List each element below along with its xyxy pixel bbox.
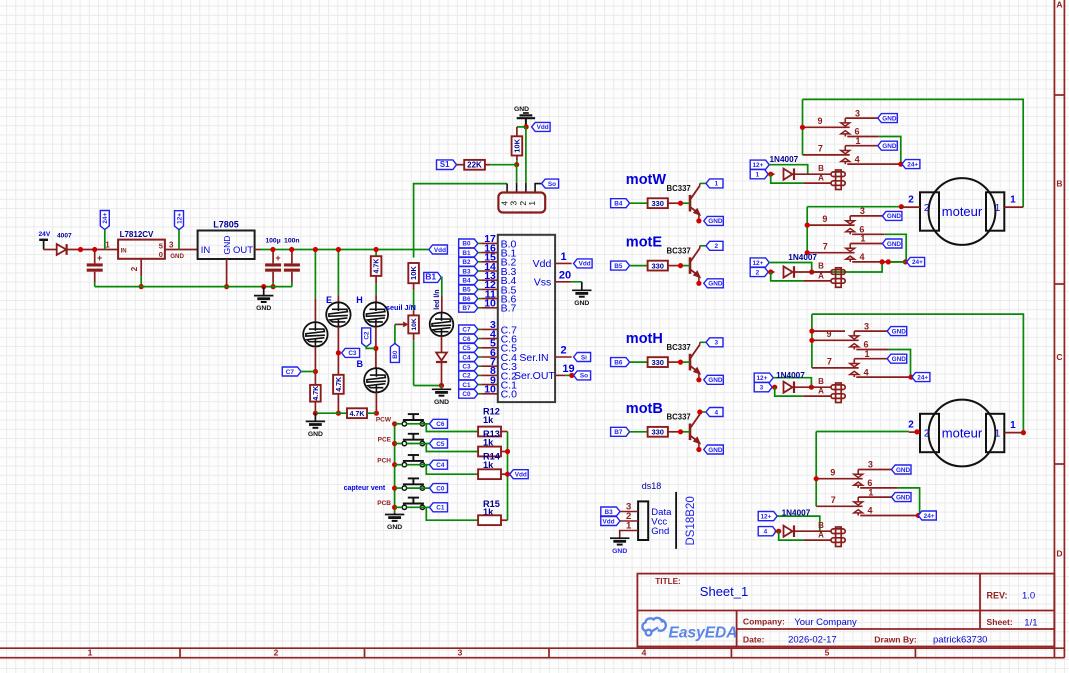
- net flag 12+: [754, 373, 773, 382]
- svg-text:330: 330: [651, 261, 664, 270]
- net flag B3: [601, 507, 620, 516]
- net flag C2: [362, 328, 371, 347]
- svg-text:1: 1: [560, 251, 566, 263]
- net flag B0: [394, 324, 396, 343]
- svg-text:2: 2: [924, 429, 930, 440]
- ground: [432, 388, 451, 390]
- net flag B4: [611, 199, 630, 208]
- net flag 4: [706, 408, 723, 417]
- button left rail wire: [394, 424, 396, 513]
- svg-text:BC337: BC337: [667, 413, 691, 422]
- pot wiper arrow: [395, 323, 405, 325]
- svg-text:7: 7: [827, 357, 832, 367]
- net flag C6: [430, 419, 448, 428]
- svg-text:1k: 1k: [483, 415, 494, 425]
- svg-text:4: 4: [864, 367, 869, 377]
- svg-text:C0: C0: [436, 485, 445, 492]
- contact K2 throw 1: [850, 243, 882, 245]
- svg-text:GND: GND: [882, 115, 897, 122]
- net flag 24+: [907, 257, 925, 266]
- wire: [337, 250, 339, 296]
- svg-text:Ser.IN: Ser.IN: [519, 352, 548, 364]
- svg-text:Vdd: Vdd: [579, 261, 591, 268]
- svg-text:10: 10: [484, 298, 496, 310]
- diode 1N4007: [771, 173, 775, 175]
- wire motor2 loop: [812, 314, 1024, 433]
- wire right rail: [507, 432, 509, 521]
- svg-text:Vdd: Vdd: [434, 247, 446, 254]
- wire: [771, 272, 804, 281]
- svg-text:B1: B1: [425, 272, 436, 282]
- Vdd rail wire: [255, 249, 261, 251]
- svg-text:3: 3: [169, 240, 174, 249]
- svg-text:2: 2: [924, 203, 930, 214]
- svg-text:B: B: [818, 164, 824, 173]
- wire: [668, 202, 681, 204]
- pin 14 B.3: [459, 267, 478, 276]
- svg-text:4.7K: 4.7K: [374, 259, 381, 274]
- svg-text:10K: 10K: [513, 138, 522, 152]
- svg-text:Sheet_1: Sheet_1: [700, 584, 748, 599]
- svg-text:100n: 100n: [284, 237, 300, 244]
- wire: [441, 363, 443, 386]
- net flag 3: [754, 383, 772, 392]
- net flag 24+: [912, 373, 930, 382]
- pin 8 C.2: [459, 371, 478, 380]
- net flag C7: [282, 367, 301, 376]
- svg-text:B0: B0: [462, 241, 471, 248]
- ground: [314, 413, 316, 421]
- junction: [569, 373, 574, 378]
- pin 16 B.1: [459, 248, 478, 257]
- svg-text:C1: C1: [462, 382, 471, 389]
- junction: [916, 513, 921, 518]
- net flag 1: [750, 170, 768, 179]
- svg-text:Company:: Company:: [743, 617, 785, 627]
- pin 3 C.7: [459, 325, 478, 334]
- pin 4 C.6: [459, 334, 478, 343]
- net flag GND: [704, 216, 724, 225]
- wire: [812, 330, 845, 332]
- junction: [505, 449, 510, 454]
- contact throw 6 wire: [856, 349, 888, 351]
- wire: [314, 347, 316, 385]
- net flag Vdd: [510, 470, 529, 479]
- junction: [800, 125, 805, 130]
- net flag GND: [892, 465, 912, 474]
- svg-text:C0: C0: [462, 391, 471, 398]
- svg-text:4.7K: 4.7K: [313, 386, 320, 401]
- svg-text:Sheet:: Sheet:: [987, 617, 1013, 627]
- L7805 gnd pin wire: [226, 259, 228, 287]
- junction: [392, 505, 397, 510]
- pin 17 B.0: [459, 239, 478, 248]
- wire rail: [815, 432, 817, 507]
- diode 1N4007: [771, 271, 775, 273]
- svg-text:A: A: [818, 531, 824, 540]
- throw 4 wire: [856, 376, 911, 378]
- svg-text:C3: C3: [462, 364, 471, 371]
- net flag Si: [574, 353, 591, 362]
- junction: [809, 338, 814, 343]
- wire: [485, 164, 490, 166]
- svg-text:3: 3: [715, 340, 719, 347]
- svg-text:B3: B3: [605, 509, 614, 516]
- svg-text:22K: 22K: [467, 161, 482, 170]
- net flag GND: [878, 114, 898, 123]
- net flag 2: [750, 267, 768, 276]
- wire: [367, 412, 376, 414]
- wire: [630, 265, 648, 267]
- junction: [678, 429, 683, 434]
- svg-text:12+: 12+: [756, 375, 767, 382]
- collector wire: [699, 246, 701, 248]
- wire: [794, 173, 831, 175]
- svg-text:C6: C6: [462, 336, 471, 343]
- svg-text:A: A: [818, 387, 824, 396]
- net flag GND: [704, 375, 724, 384]
- svg-text:4: 4: [715, 409, 719, 416]
- svg-text:3: 3: [868, 460, 873, 470]
- svg-text:B4: B4: [462, 278, 471, 285]
- junction: [696, 281, 701, 286]
- svg-text:3: 3: [458, 647, 463, 657]
- junction: [678, 360, 683, 365]
- capacitor C in: [94, 250, 96, 264]
- junction: [139, 284, 144, 289]
- svg-text:1.0: 1.0: [1022, 591, 1035, 602]
- svg-text:GND: GND: [896, 494, 911, 501]
- svg-text:GND: GND: [222, 236, 232, 255]
- IC U3 microcontroller: [498, 235, 555, 402]
- svg-text:B4: B4: [614, 201, 623, 208]
- resistor 330: [648, 357, 668, 367]
- svg-text:DS18B20: DS18B20: [685, 496, 697, 545]
- junction: [1021, 430, 1026, 435]
- svg-text:C2: C2: [462, 373, 471, 380]
- junction: [914, 429, 919, 434]
- svg-text:Drawn By:: Drawn By:: [874, 635, 917, 645]
- net flag B5: [611, 261, 630, 270]
- junction: [696, 447, 701, 452]
- svg-text:Vdd: Vdd: [533, 258, 552, 270]
- svg-text:B2: B2: [462, 259, 471, 266]
- wire: [337, 394, 339, 413]
- net flag C3: [342, 348, 360, 357]
- svg-text:PCB: PCB: [377, 500, 391, 507]
- svg-text:1: 1: [756, 172, 760, 179]
- svg-text:330: 330: [651, 428, 664, 437]
- wire: [441, 386, 443, 390]
- wire: [314, 402, 316, 414]
- svg-text:GND: GND: [256, 305, 271, 312]
- throw 4 wire: [852, 261, 905, 263]
- svg-text:1: 1: [1010, 420, 1016, 431]
- svg-text:9: 9: [817, 116, 822, 126]
- svg-text:1: 1: [860, 234, 865, 244]
- svg-text:24V: 24V: [39, 231, 51, 238]
- svg-text:GND: GND: [892, 328, 907, 335]
- svg-text:2: 2: [130, 266, 139, 271]
- svg-text:10: 10: [484, 384, 496, 396]
- svg-text:B7: B7: [614, 429, 623, 436]
- junction: [805, 223, 810, 228]
- svg-text:+: +: [275, 253, 280, 263]
- svg-text:4: 4: [867, 506, 872, 516]
- svg-text:B.7: B.7: [501, 303, 517, 315]
- junction: [809, 385, 814, 390]
- svg-text:12+: 12+: [752, 162, 763, 169]
- wire: [794, 386, 831, 388]
- junction: [224, 284, 229, 289]
- svg-text:PCH: PCH: [377, 458, 391, 465]
- svg-text:2026-02-17: 2026-02-17: [788, 635, 837, 646]
- svg-text:TITLE:: TITLE:: [655, 577, 680, 586]
- junction: [313, 369, 318, 374]
- junction: [903, 259, 908, 264]
- net flag So: [574, 371, 591, 380]
- svg-text:patrick63730: patrick63730: [933, 635, 987, 646]
- bottom rail wire: [315, 412, 347, 414]
- wire: [668, 361, 681, 363]
- wire: [812, 262, 882, 272]
- collector wire: [699, 183, 701, 185]
- svg-text:C2: C2: [364, 331, 371, 340]
- svg-text:1: 1: [1010, 194, 1016, 205]
- net flag GND: [704, 445, 724, 454]
- svg-text:GND: GND: [708, 377, 723, 384]
- junction: [814, 476, 819, 481]
- net flag Vdd: [601, 517, 620, 526]
- svg-text:B: B: [1056, 179, 1062, 189]
- contact throw 6 wire: [847, 136, 879, 138]
- wire: [630, 361, 648, 363]
- svg-text:24+: 24+: [102, 213, 109, 224]
- push button capteur vent: [402, 486, 406, 490]
- wire: [441, 296, 443, 313]
- diode 1N4007: [774, 386, 776, 388]
- diode 1N4007: [775, 530, 779, 532]
- svg-text:4.7K: 4.7K: [336, 377, 343, 392]
- pin 6 C.4: [459, 353, 478, 362]
- svg-text:24+: 24+: [924, 513, 935, 520]
- motor M2: [929, 400, 996, 467]
- pin 11 B.6: [459, 294, 478, 303]
- net flag 2: [706, 241, 723, 250]
- motor M1: [929, 178, 996, 245]
- wire: [794, 271, 831, 273]
- relay contacts: [816, 478, 862, 480]
- ground: [394, 513, 396, 515]
- resistor 330: [648, 198, 668, 208]
- svg-text:So: So: [548, 181, 556, 188]
- pin 13 B.4: [459, 276, 478, 285]
- junction: [289, 247, 294, 252]
- resistor 4.7K: [371, 256, 382, 276]
- svg-text:C7: C7: [462, 327, 471, 334]
- emitter wire: [698, 276, 700, 283]
- svg-text:12+: 12+: [176, 213, 183, 224]
- wire motor1 loop: [803, 99, 1024, 207]
- svg-text:motW: motW: [626, 172, 667, 188]
- net flag 24+: [902, 160, 920, 169]
- svg-text:B6: B6: [462, 296, 471, 303]
- svg-text:Si: Si: [581, 354, 587, 361]
- svg-text:1/1: 1/1: [1024, 618, 1037, 629]
- svg-text:seuil J/N: seuil J/N: [386, 303, 416, 312]
- junction: [374, 411, 379, 416]
- svg-text:B: B: [818, 262, 824, 271]
- svg-text:3: 3: [855, 108, 860, 118]
- junction: [374, 247, 379, 252]
- junction: [392, 421, 397, 426]
- wire: [457, 164, 465, 166]
- svg-text:moteur: moteur: [942, 426, 983, 441]
- svg-text:B7: B7: [462, 305, 471, 312]
- wire: [337, 327, 339, 375]
- ground: [610, 537, 629, 539]
- svg-text:12+: 12+: [760, 513, 771, 520]
- resistor 4.7K horizontal: [347, 408, 367, 418]
- ground: [263, 287, 265, 296]
- contact K throw 3: [858, 469, 891, 471]
- wire rail: [806, 207, 808, 253]
- junction: [805, 250, 810, 255]
- svg-text:C4: C4: [436, 462, 445, 469]
- net flag 24+: [918, 511, 936, 520]
- svg-text:GND: GND: [612, 548, 627, 555]
- svg-text:S1: S1: [440, 160, 450, 169]
- svg-text:4: 4: [855, 154, 860, 164]
- net flag S1: [437, 160, 457, 170]
- svg-text:GND: GND: [708, 218, 723, 225]
- svg-text:Vdd: Vdd: [603, 518, 615, 525]
- junction: [336, 411, 341, 416]
- junction: [92, 247, 97, 252]
- svg-text:B6: B6: [614, 359, 623, 366]
- relay contacts: [812, 339, 859, 341]
- junction: [772, 385, 777, 390]
- svg-text:Gnd: Gnd: [651, 526, 669, 537]
- svg-text:GND: GND: [434, 399, 449, 406]
- wire: [375, 276, 377, 284]
- svg-text:GND: GND: [708, 447, 723, 454]
- net flag GND: [887, 354, 907, 363]
- svg-text:1N4007: 1N4007: [776, 371, 805, 380]
- resistor 330: [648, 261, 668, 271]
- svg-text:20: 20: [559, 269, 571, 281]
- wire rail: [811, 314, 813, 368]
- contact throw 6 wire: [860, 487, 897, 489]
- svg-text:motH: motH: [626, 331, 663, 347]
- junction: [261, 284, 266, 289]
- svg-text:1: 1: [864, 349, 869, 359]
- svg-text:L7812CV: L7812CV: [120, 230, 154, 239]
- svg-text:1N4007: 1N4007: [782, 509, 811, 518]
- resistor 4.7K: [333, 375, 344, 394]
- svg-text:led l/n: led l/n: [434, 289, 441, 309]
- svg-text:1: 1: [88, 647, 93, 657]
- svg-text:GND: GND: [887, 213, 902, 220]
- pin 12 B.5: [459, 285, 478, 294]
- svg-text:9: 9: [830, 468, 835, 478]
- svg-text:+: +: [97, 253, 102, 263]
- junction: [696, 218, 701, 223]
- junction: [392, 486, 397, 491]
- net flag 3: [706, 338, 723, 347]
- junction: [313, 411, 318, 416]
- pin 10 C.0: [459, 389, 478, 398]
- svg-text:capteur vent: capteur vent: [344, 485, 386, 492]
- svg-text:C3: C3: [348, 350, 357, 357]
- emitter wire: [698, 442, 700, 449]
- junction: [439, 383, 444, 388]
- relay contacts: [807, 224, 854, 226]
- ground: [581, 282, 583, 291]
- svg-text:BC337: BC337: [667, 343, 691, 352]
- wire: [314, 250, 316, 299]
- svg-text:1: 1: [715, 181, 719, 188]
- net flag C4: [430, 460, 448, 469]
- net flag B1: [424, 272, 441, 282]
- pin 9 C.1: [459, 380, 478, 389]
- svg-text:motE: motE: [626, 235, 663, 251]
- svg-text:4.7K: 4.7K: [350, 411, 365, 418]
- resistor 10K: [512, 136, 523, 155]
- wire: [773, 378, 811, 388]
- connector P1 pins 1-4: [506, 184, 508, 193]
- svg-text:10K: 10K: [409, 266, 418, 280]
- ground bottom wire: [95, 286, 292, 288]
- svg-text:7: 7: [831, 495, 836, 505]
- wire: [668, 431, 681, 433]
- collector wire: [699, 412, 701, 414]
- svg-text:1: 1: [105, 240, 110, 249]
- svg-text:5: 5: [825, 647, 830, 657]
- wire: [630, 431, 648, 433]
- svg-text:C: C: [1056, 352, 1062, 362]
- contact throw 6 wire: [852, 233, 884, 235]
- junction: [697, 409, 702, 414]
- svg-text:1N4007: 1N4007: [770, 155, 799, 164]
- svg-text:B: B: [818, 377, 824, 386]
- contact K2 throw 1: [854, 358, 887, 360]
- svg-text:4: 4: [859, 252, 864, 262]
- svg-text:B: B: [818, 521, 824, 530]
- svg-text:24+: 24+: [912, 259, 923, 266]
- pin 15 B.2: [459, 257, 478, 266]
- net flag 4: [758, 527, 776, 536]
- svg-text:A: A: [818, 174, 824, 183]
- svg-text:4: 4: [764, 529, 768, 536]
- wire: [775, 387, 804, 396]
- svg-text:2: 2: [756, 269, 760, 276]
- svg-text:C5: C5: [462, 345, 471, 352]
- junction: [776, 529, 781, 534]
- svg-text:3: 3: [760, 385, 764, 392]
- throw 4 wire: [847, 163, 901, 165]
- net flag GND: [882, 211, 902, 220]
- wire: [104, 230, 106, 250]
- net flag B6: [611, 358, 630, 367]
- svg-text:BC337: BC337: [667, 246, 691, 255]
- wire: [794, 530, 831, 532]
- svg-text:Vdd: Vdd: [515, 472, 527, 479]
- wire: [375, 327, 377, 368]
- resistor 22K: [464, 160, 485, 170]
- svg-text:L7805: L7805: [213, 220, 239, 230]
- pin 5 C.5: [459, 343, 478, 352]
